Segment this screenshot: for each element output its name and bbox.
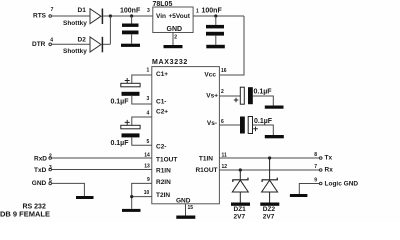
svg-text:R1OUT: R1OUT — [195, 167, 217, 174]
svg-text:2V7: 2V7 — [234, 214, 246, 221]
terminal Rx pin 7 — [314, 164, 333, 173]
svg-text:0.1µF: 0.1µF — [254, 118, 273, 125]
regulator U1 78L05 — [147, 1, 199, 41]
svg-text:9: 9 — [314, 178, 317, 184]
capacitor C4 0.1uF on Vs- — [219, 117, 273, 136]
svg-text:1: 1 — [196, 8, 199, 14]
wire Logic GND to ground — [299, 184, 319, 195]
ground under output cap — [206, 45, 225, 49]
svg-text:RxD: RxD — [34, 155, 47, 162]
svg-text:D2: D2 — [78, 36, 87, 43]
svg-text:C2+: C2+ — [156, 109, 168, 116]
wire RTS to D1 anode — [52, 15, 90, 17]
svg-text:DTR: DTR — [32, 41, 46, 48]
text RS 232 connector note — [0, 204, 50, 219]
wire R2IN tie to ground — [132, 183, 152, 209]
svg-text:100nF: 100nF — [120, 7, 141, 14]
ground for Logic GND — [290, 194, 308, 197]
svg-text:C1-: C1- — [156, 99, 166, 106]
svg-text:RTS: RTS — [33, 13, 47, 20]
svg-text:15: 15 — [188, 205, 194, 211]
svg-text:1: 1 — [147, 67, 150, 73]
wire RxD to T1OUT — [52, 157, 152, 159]
svg-text:3: 3 — [49, 165, 52, 171]
svg-text:DZ2: DZ2 — [263, 206, 276, 213]
svg-text:GND: GND — [32, 180, 47, 187]
wire 78L05 GND stem — [172, 33, 174, 46]
svg-text:2: 2 — [49, 154, 52, 160]
svg-text:6: 6 — [221, 119, 224, 125]
svg-text:78L05: 78L05 — [153, 1, 173, 8]
ground for C4 — [265, 135, 284, 138]
svg-text:3: 3 — [147, 96, 150, 102]
svg-text:100nF: 100nF — [202, 7, 223, 14]
svg-text:GND: GND — [176, 198, 191, 205]
svg-text:8: 8 — [314, 152, 317, 158]
wire R1OUT to Rx — [219, 169, 319, 171]
ground for DB9 GND — [76, 196, 94, 199]
wire D1 cathode to 78L05 Vin — [103, 15, 153, 17]
svg-text:Vin: Vin — [156, 13, 166, 20]
svg-text:Tx: Tx — [325, 155, 333, 162]
svg-text:+5Vout: +5Vout — [169, 13, 191, 20]
svg-text:D1: D1 — [78, 7, 87, 14]
svg-text:Shottky: Shottky — [63, 48, 87, 55]
ground for DZ2 — [260, 203, 279, 206]
IC U2 MAX3232 — [144, 59, 228, 211]
svg-text:0.1µF: 0.1µF — [110, 99, 129, 106]
ground for R2IN/T2IN — [122, 209, 141, 212]
wire Vcc feed to pin 16 — [219, 16, 244, 75]
diode D2 (Schottky) — [63, 36, 102, 55]
terminal RxD pin 2 — [34, 154, 52, 163]
svg-text:4: 4 — [50, 37, 53, 43]
junction 100nF cap 1 — [130, 14, 133, 17]
svg-text:16: 16 — [221, 68, 227, 74]
terminal DTR pin 4 — [32, 37, 53, 47]
svg-text:4: 4 — [147, 111, 150, 117]
svg-text:DB 9 FEMALE: DB 9 FEMALE — [0, 210, 50, 219]
svg-text:T1IN: T1IN — [199, 155, 213, 162]
svg-text:2: 2 — [174, 35, 177, 41]
svg-text:2V7: 2V7 — [263, 214, 275, 221]
svg-text:0.1µF: 0.1µF — [110, 140, 129, 147]
svg-text:9: 9 — [147, 177, 150, 183]
wire T1IN to Tx — [219, 157, 319, 159]
svg-text:MAX3232: MAX3232 — [152, 59, 188, 66]
svg-text:Rx: Rx — [325, 166, 334, 173]
terminal TxD pin 3 — [34, 165, 52, 174]
svg-text:R2IN: R2IN — [156, 179, 171, 186]
svg-text:Vs+: Vs+ — [206, 93, 218, 100]
svg-text:C2-: C2- — [156, 143, 166, 150]
svg-text:7: 7 — [51, 7, 54, 13]
ground under input cap — [121, 44, 140, 47]
junction DZ1 on Rx line — [239, 168, 242, 171]
wire T2IN tie — [132, 196, 152, 198]
junction 100nF cap 2 — [214, 14, 217, 17]
svg-text:5: 5 — [49, 178, 52, 184]
svg-text:7: 7 — [314, 164, 317, 170]
capacitor 100nF (output) — [202, 7, 225, 44]
capacitor C3 0.1uF on Vs+ — [219, 87, 273, 105]
junction D1/D2 tie — [109, 14, 112, 17]
svg-text:13: 13 — [144, 163, 150, 169]
junction R2IN/T2IN — [130, 195, 133, 198]
zener DZ1 2V7 — [232, 170, 248, 221]
svg-text:GND: GND — [167, 26, 183, 33]
svg-text:DZ1: DZ1 — [234, 206, 247, 213]
terminal Tx pin 8 — [314, 152, 332, 162]
svg-text:5: 5 — [147, 139, 150, 145]
svg-text:10: 10 — [144, 190, 150, 196]
svg-text:T2IN: T2IN — [156, 192, 170, 199]
wire vertical D1 to D2 — [109, 16, 111, 44]
svg-text:12: 12 — [222, 164, 228, 170]
svg-text:Shottky: Shottky — [63, 20, 87, 27]
svg-text:0.1µF: 0.1µF — [254, 89, 273, 96]
svg-text:T1OUT: T1OUT — [156, 156, 177, 163]
wire GND to ground — [52, 183, 85, 196]
svg-text:Vcc: Vcc — [204, 72, 216, 79]
capacitor C2 0.1uF — [110, 117, 151, 147]
terminal Logic GND pin 9 — [314, 178, 358, 188]
ground for IC pin 15 — [176, 216, 195, 219]
ground for DZ1 — [231, 203, 250, 206]
svg-text:14: 14 — [144, 152, 150, 158]
wire DTR to D2 anode — [52, 43, 90, 45]
wire D2 cathode to vertical tie — [103, 43, 110, 45]
capacitor 100nF (input) — [120, 7, 141, 43]
svg-text:R1IN: R1IN — [156, 168, 171, 175]
terminal GND pin 5 — [32, 178, 52, 187]
terminal RTS pin 7 — [33, 7, 54, 20]
diode D1 (Schottky) — [63, 7, 102, 27]
capacitor C1 0.1uF — [110, 75, 151, 106]
wire TxD to R1IN — [52, 169, 152, 171]
zener DZ2 2V7 — [262, 158, 278, 221]
svg-text:Logic GND: Logic GND — [325, 181, 359, 188]
svg-text:2: 2 — [221, 89, 224, 95]
svg-text:C1+: C1+ — [156, 71, 168, 78]
wire IC GND pin 15 stem — [185, 204, 187, 216]
ground under 78L05 — [164, 45, 183, 48]
svg-text:TxD: TxD — [34, 167, 47, 174]
ground for C3 — [265, 106, 284, 109]
wire 78L05 output rail — [193, 15, 244, 17]
junction DZ2 on Tx line — [268, 156, 271, 159]
svg-text:Vs-: Vs- — [207, 120, 217, 127]
svg-text:3: 3 — [147, 8, 150, 14]
